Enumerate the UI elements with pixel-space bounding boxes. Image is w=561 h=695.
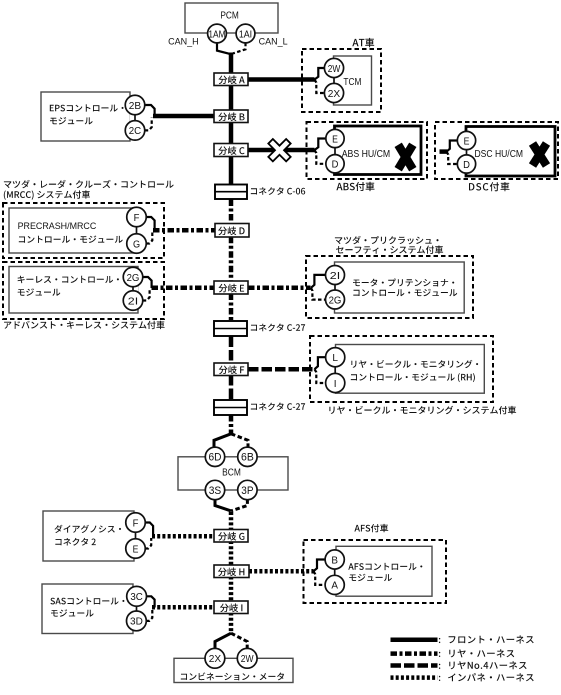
svg-text:B: B (331, 555, 338, 566)
svg-text:2G: 2G (329, 295, 342, 306)
svg-text:E: E (133, 544, 139, 555)
svg-text:3S: 3S (209, 485, 222, 497)
svg-text:2B: 2B (129, 101, 141, 112)
svg-text:2C: 2C (129, 126, 142, 137)
svg-text:G: G (133, 239, 140, 250)
svg-text:E: E (464, 136, 470, 147)
svg-text:E: E (332, 134, 338, 145)
svg-text:2I: 2I (330, 271, 340, 282)
svg-text:1AM: 1AM (208, 29, 225, 40)
svg-text:6B: 6B (241, 452, 254, 464)
svg-text:CAN_H: CAN_H (168, 36, 199, 46)
svg-text:A: A (331, 581, 338, 592)
svg-text:CAN_L: CAN_L (259, 36, 288, 46)
svg-text:D: D (332, 160, 339, 171)
svg-text:6D: 6D (209, 452, 222, 464)
svg-text:2W: 2W (241, 654, 254, 665)
svg-text:2G: 2G (127, 273, 140, 284)
svg-text:3D: 3D (130, 617, 143, 628)
svg-text:F: F (133, 518, 139, 529)
svg-text:PRECRASH/MRCC: PRECRASH/MRCC (18, 221, 97, 231)
svg-text:DSC HU/CM: DSC HU/CM (475, 149, 524, 160)
svg-text:2X: 2X (328, 89, 340, 100)
svg-text:BCM: BCM (222, 468, 241, 479)
svg-text:PCM: PCM (220, 10, 239, 22)
svg-text:2X: 2X (209, 654, 221, 665)
svg-text:L: L (332, 353, 338, 364)
svg-text:2W: 2W (328, 64, 341, 75)
svg-text:ABS HU/CM: ABS HU/CM (342, 149, 391, 160)
svg-text:3P: 3P (241, 485, 253, 497)
svg-text:F: F (134, 213, 140, 224)
svg-text:I: I (334, 379, 337, 390)
svg-text:1AI: 1AI (239, 29, 252, 40)
svg-text:2I: 2I (128, 296, 138, 307)
svg-text:3C: 3C (130, 592, 143, 603)
svg-text:D: D (463, 160, 470, 171)
svg-text:TCM: TCM (343, 77, 361, 88)
